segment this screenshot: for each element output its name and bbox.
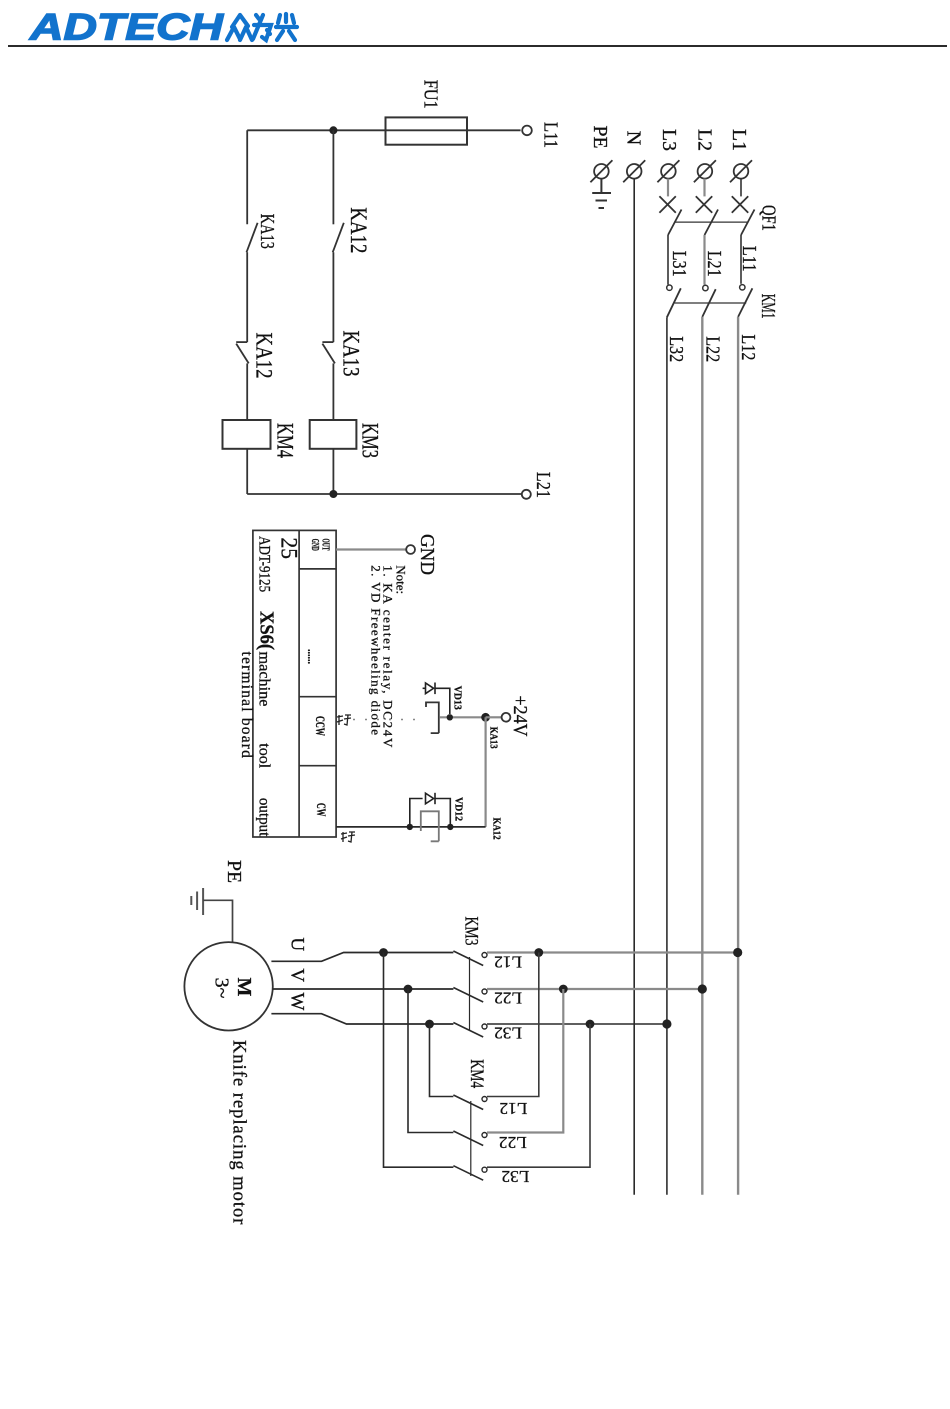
wire right branch middle xyxy=(332,252,334,342)
wire KA13 to +24V node xyxy=(440,716,486,718)
svg-text:KA12: KA12 xyxy=(252,333,277,379)
node L32 supply xyxy=(662,1019,671,1028)
ground PE supply xyxy=(592,179,611,208)
wire CW xyxy=(336,826,486,828)
wire top rail L11 xyxy=(247,129,520,131)
coil KA12 xyxy=(421,811,439,841)
svg-text:W: W xyxy=(287,993,308,1011)
contactor KM1 pole 3 xyxy=(667,285,681,317)
svg-text:VD12: VD12 xyxy=(452,797,464,821)
wire +24V stub xyxy=(486,716,502,718)
wire N vertical xyxy=(633,179,635,1195)
contactor KM4 pole L12 xyxy=(453,1095,487,1110)
board cell divider 1 xyxy=(299,568,336,570)
contactor KM1 pole 2 xyxy=(702,285,715,317)
svg-text:tool: tool xyxy=(256,743,273,768)
node VD13 junction xyxy=(447,714,453,720)
svg-text:KA13: KA13 xyxy=(487,727,499,749)
svg-text:L32: L32 xyxy=(494,1024,522,1043)
wire V down to KM4 xyxy=(408,989,453,1133)
svg-text:KA13: KA13 xyxy=(256,214,278,249)
glyph CCW zhuan xyxy=(337,715,351,725)
board XS6 outer box xyxy=(253,530,336,837)
logo chinese 众为兴 xyxy=(227,14,297,40)
svg-text:L22: L22 xyxy=(499,1133,527,1152)
svg-text:L21: L21 xyxy=(532,472,554,498)
wire L22 vertical xyxy=(701,317,703,1195)
svg-text:L12: L12 xyxy=(494,953,522,972)
node row3 mid xyxy=(586,1020,595,1029)
breaker QF1 pole L3 xyxy=(659,179,681,285)
KM1 linkage xyxy=(675,302,747,304)
terminal L1 xyxy=(730,160,752,182)
wire KM4 feed 3 xyxy=(487,1024,590,1167)
wire W down to KM4 xyxy=(430,1024,454,1097)
svg-text:L1: L1 xyxy=(728,129,750,151)
terminal L2 xyxy=(694,160,716,182)
svg-text:3~: 3~ xyxy=(210,978,232,999)
wire +24V down to KA12 xyxy=(485,717,487,827)
svg-text:L21: L21 xyxy=(703,251,725,277)
node row2 mid xyxy=(559,985,568,994)
node L22 supply xyxy=(698,984,707,993)
wire row1 right xyxy=(487,951,738,953)
wire row2 right xyxy=(487,988,702,990)
coil KM4 xyxy=(223,420,298,458)
wire V phase xyxy=(273,988,454,990)
svg-text:VD13: VD13 xyxy=(452,686,464,710)
svg-text:CCW: CCW xyxy=(313,716,328,736)
terminal L3 xyxy=(657,160,679,182)
svg-text:GND: GND xyxy=(416,534,438,575)
svg-text:CW: CW xyxy=(314,803,329,817)
svg-text:M: M xyxy=(233,978,255,997)
svg-text:QF1: QF1 xyxy=(757,205,779,231)
svg-text:2. VD Freewheeling diode: 2. VD Freewheeling diode xyxy=(369,565,384,736)
svg-text:terminal board: terminal board xyxy=(238,652,255,760)
logo ADTECH xyxy=(29,7,225,48)
svg-text:PE: PE xyxy=(589,126,611,149)
contact KA13 (NC, right branch) xyxy=(322,331,363,377)
svg-text:XS6(: XS6( xyxy=(256,611,278,650)
contactor KM1 pole 1 xyxy=(738,285,752,317)
terminal +24V xyxy=(502,696,531,737)
svg-text:ADT-9125: ADT-9125 xyxy=(255,536,272,592)
contact KA12 (NC, left branch) xyxy=(236,333,276,379)
wire left branch upper xyxy=(246,130,248,224)
svg-text:KA12: KA12 xyxy=(346,207,371,253)
svg-text:L2: L2 xyxy=(693,129,715,151)
svg-text:machine: machine xyxy=(256,652,273,707)
node +24V junction xyxy=(481,713,490,722)
wire L32 vertical xyxy=(666,317,668,1194)
svg-text:FU1: FU1 xyxy=(419,80,441,109)
terminal PE xyxy=(590,160,612,182)
coil KM3 xyxy=(310,420,383,458)
node top junction xyxy=(329,126,337,134)
svg-text:KM4: KM4 xyxy=(273,423,298,458)
node L12 supply xyxy=(733,948,742,957)
terminal L11 xyxy=(522,122,562,148)
wire right branch lower xyxy=(332,363,334,420)
board divider column xyxy=(298,530,300,837)
terminal GND xyxy=(406,534,438,575)
svg-text:L12: L12 xyxy=(499,1099,527,1118)
wire U phase xyxy=(271,953,453,962)
wire CCW dashed xyxy=(353,719,422,721)
svg-text:L3: L3 xyxy=(658,129,680,151)
wire W phase xyxy=(271,1014,453,1024)
svg-text:L31: L31 xyxy=(668,251,690,277)
svg-text:25: 25 xyxy=(276,538,301,560)
svg-text:OUT: OUT xyxy=(320,539,331,551)
ground motor PE xyxy=(191,888,203,915)
svg-text:GND: GND xyxy=(309,539,320,551)
node U junction xyxy=(379,948,388,957)
node VD12 right xyxy=(447,824,453,830)
wire KM4 feed 2 xyxy=(487,989,563,1133)
svg-text:N: N xyxy=(623,131,645,145)
breaker QF1 pole L1 xyxy=(732,179,755,284)
svg-text:U: U xyxy=(287,937,308,951)
svg-text:L32: L32 xyxy=(665,336,687,362)
wire KM3 to bottom rail xyxy=(332,449,334,494)
board cell divider 3 xyxy=(299,765,336,767)
fuse FU1 xyxy=(386,80,468,145)
svg-text:KM4: KM4 xyxy=(466,1059,487,1088)
svg-text:ADTECH: ADTECH xyxy=(29,7,225,48)
svg-text:L22: L22 xyxy=(494,989,522,1008)
contactor KM3 pole L22 xyxy=(453,988,487,1003)
node V junction xyxy=(404,985,413,994)
coil KA13 xyxy=(426,702,439,733)
wire left branch middle xyxy=(246,252,248,342)
svg-text:KM3: KM3 xyxy=(358,423,383,458)
svg-text:L11: L11 xyxy=(738,246,760,272)
contactor KM3 pole L12 xyxy=(453,951,487,966)
wire KM4 feed 1 xyxy=(487,953,539,1097)
QF1 linkage xyxy=(674,221,748,223)
motor M 3~ xyxy=(184,942,272,1030)
terminal N xyxy=(623,160,645,182)
svg-text:KM1: KM1 xyxy=(757,294,779,319)
diode VD12 xyxy=(410,793,451,827)
contactor KM4 pole L22 xyxy=(453,1131,487,1146)
wire U down to KM4 xyxy=(384,953,454,1168)
wire bottom rail L21 xyxy=(247,493,521,495)
contactor KM4 pole L32 xyxy=(453,1166,487,1181)
node VD12 left xyxy=(407,824,413,830)
wire PE to motor xyxy=(203,900,232,942)
svg-text:KA13: KA13 xyxy=(339,331,364,377)
svg-text:KM3: KM3 xyxy=(461,917,482,946)
svg-text:L32: L32 xyxy=(501,1167,529,1186)
contactor KM3 pole L32 xyxy=(453,1023,487,1038)
wire right branch upper xyxy=(332,130,334,224)
note text xyxy=(369,565,409,749)
contact KA13 (NO, left branch) xyxy=(247,214,279,253)
wire left branch lower xyxy=(246,363,248,420)
svg-text:+24V: +24V xyxy=(509,696,531,737)
svg-text:L12: L12 xyxy=(737,334,759,360)
wire GND xyxy=(336,548,406,550)
svg-text:output: output xyxy=(256,798,273,837)
breaker QF1 pole L2 xyxy=(696,179,718,285)
diode VD13 xyxy=(423,683,450,715)
node W junction xyxy=(425,1020,434,1029)
wire row3 right xyxy=(487,1023,667,1025)
wire KM4 to bottom rail xyxy=(246,449,248,494)
board cell divider 2 xyxy=(299,696,336,698)
svg-text:PE: PE xyxy=(223,860,245,883)
header rule xyxy=(8,45,947,47)
svg-text:......: ...... xyxy=(305,649,319,664)
svg-text:V: V xyxy=(287,968,308,982)
contact KA12 (NO, right branch) xyxy=(333,207,371,253)
svg-text:L22: L22 xyxy=(702,336,724,362)
node bottom junction xyxy=(329,490,337,498)
KM4 linkage xyxy=(470,1101,472,1176)
KM3 linkage xyxy=(469,957,471,1030)
svg-text:Knife replacing motor: Knife replacing motor xyxy=(229,1040,249,1225)
glyph CW zhuan xyxy=(341,832,355,842)
svg-text:KA12: KA12 xyxy=(491,818,503,840)
node row1 mid xyxy=(534,948,543,957)
wire L12 vertical xyxy=(737,317,739,1195)
terminal L21 xyxy=(522,472,554,499)
svg-text:L11: L11 xyxy=(540,122,562,148)
